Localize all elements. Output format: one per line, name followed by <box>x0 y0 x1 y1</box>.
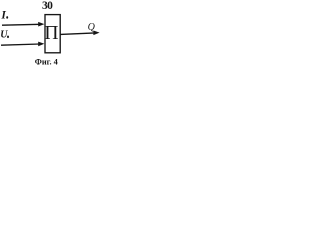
arrowhead input I <box>38 22 44 27</box>
arrowhead output Q <box>93 31 99 36</box>
wire output Q <box>60 33 95 35</box>
wire input I <box>2 23 40 26</box>
svg-text:I: I <box>0 10 6 22</box>
svg-text:Q: Q <box>88 22 96 33</box>
svg-text:U: U <box>0 30 8 41</box>
subscript of I1 <box>6 16 8 19</box>
arrowhead input U <box>38 42 44 47</box>
svg-text:Фиг. 4: Фиг. 4 <box>35 57 58 66</box>
wire input U <box>1 44 40 45</box>
block U30 (multiplier) box <box>45 15 60 53</box>
subscript of U1 <box>7 36 9 39</box>
svg-text:П: П <box>44 23 58 44</box>
svg-text:30: 30 <box>42 0 53 12</box>
